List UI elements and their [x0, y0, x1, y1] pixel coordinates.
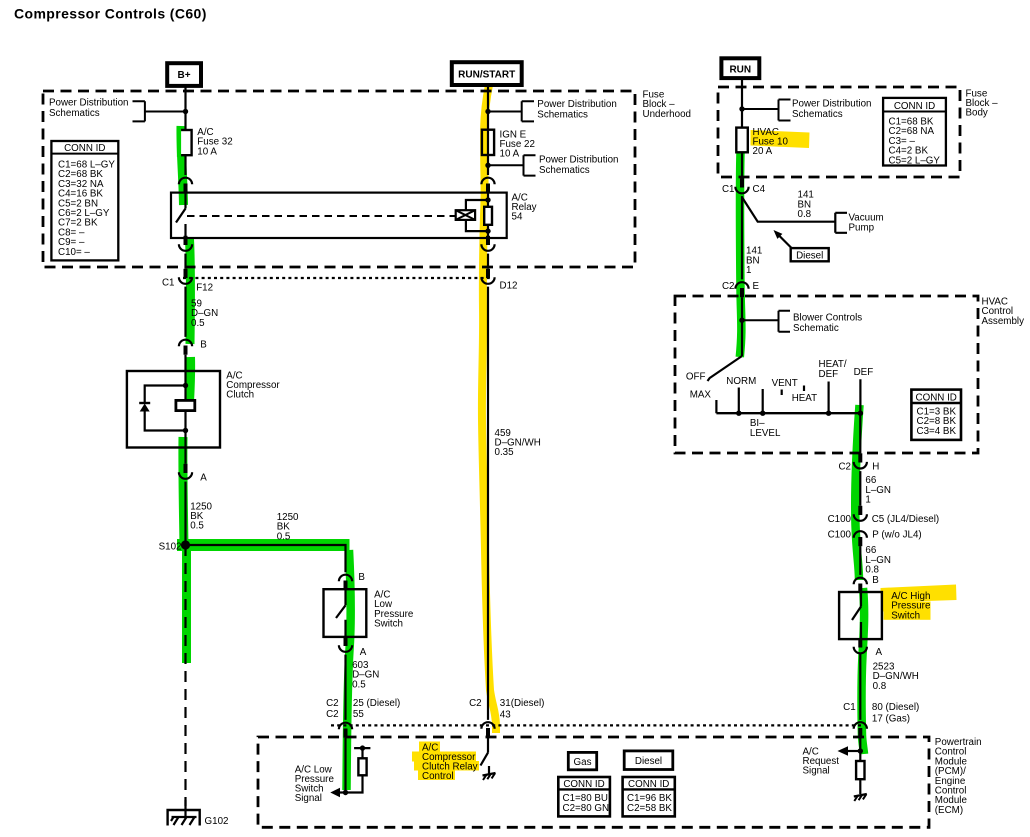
connector C1 into PCM (request signal) [843, 702, 919, 737]
wire 1250 BK 0.5 to S102 [184, 482, 186, 545]
connector C2/H [838, 453, 879, 472]
svg-text:C1: C1 [843, 702, 856, 713]
svg-text:Schematics: Schematics [792, 109, 843, 120]
wire highlight green: clutch to S102 [183, 437, 184, 548]
svg-text:0.8: 0.8 [873, 681, 887, 692]
wire into clutch [184, 355, 186, 401]
svg-text:C3=4 BK: C3=4 BK [917, 426, 957, 437]
svg-text:CONN ID: CONN ID [894, 101, 935, 112]
connector dotted line: fuse block underhood C1/D12 [183, 277, 493, 279]
wire highlight green: into clutch box [190, 357, 191, 402]
relay coil branch [466, 193, 488, 238]
wire inside PCM (low pressure signal) [344, 738, 346, 793]
svg-text:C2: C2 [326, 709, 339, 720]
svg-text:Body: Body [966, 108, 988, 119]
wire DEF down to C2/H [859, 413, 861, 453]
svg-text:Schematic: Schematic [793, 323, 839, 334]
node junction dot signal [343, 790, 348, 795]
svg-text:A: A [876, 647, 883, 658]
svg-text:25 (Diesel): 25 (Diesel) [353, 698, 400, 709]
node B+ [167, 63, 201, 86]
mode switch blade to OFF [708, 356, 743, 381]
svg-text:Switch: Switch [891, 610, 920, 621]
svg-text:Switch: Switch [374, 619, 403, 630]
svg-text:0.8: 0.8 [865, 565, 879, 576]
node junction dot power distribution stub 2 [485, 163, 490, 168]
svg-text:Power Distribution: Power Distribution [537, 99, 617, 110]
node junction dot power distribution stub (left) [183, 109, 188, 114]
wire highlight yellow: RUN/START ignition feed [482, 85, 496, 733]
node RUN [721, 58, 759, 78]
connector C2 into PCM (low pressure signal) [326, 698, 400, 738]
connector inline (left, above relay) [179, 178, 192, 193]
svg-text:31(Diesel): 31(Diesel) [500, 698, 545, 709]
node junction dot power distribution stub (RUN) [739, 106, 744, 111]
resistor (request signal) [856, 761, 864, 779]
high pressure switch contact [852, 592, 861, 639]
svg-text:G102: G102 [205, 816, 229, 827]
svg-text:10 A: 10 A [197, 146, 217, 157]
wire stub to power distribution schematics 2 [488, 155, 536, 175]
svg-text:NORM: NORM [726, 376, 756, 387]
wire highlight green: low pressure switch branch [347, 550, 351, 790]
svg-text:1: 1 [865, 495, 870, 506]
PCM internal clutch relay driver switch [481, 737, 489, 765]
node junction dots mode bus [736, 411, 741, 416]
svg-text:RUN/START: RUN/START [458, 70, 515, 81]
clutch diode loop [145, 386, 186, 431]
relay coil rect [484, 207, 492, 225]
svg-text:0.5: 0.5 [190, 521, 204, 532]
svg-text:C2: C2 [469, 698, 482, 709]
arrow A/C request signal [846, 750, 860, 752]
svg-text:80 (Diesel): 80 (Diesel) [872, 702, 919, 713]
A/C low pressure switch box [324, 589, 367, 637]
connector C1/F12 [162, 269, 213, 294]
svg-text:B: B [200, 340, 207, 351]
node junction dot blower stub [739, 318, 744, 323]
arrow A/C low pressure switch signal [330, 788, 340, 798]
wire 459 D-GN/WH 0.35 [487, 287, 489, 720]
svg-text:CONN ID: CONN ID [563, 779, 604, 790]
chassis ground (request signal) [854, 794, 867, 801]
wire 59 D-GN 0.5 [184, 287, 186, 337]
svg-text:CONN ID: CONN ID [64, 143, 105, 154]
svg-text:C2: C2 [326, 698, 339, 709]
svg-text:C2: C2 [722, 281, 735, 292]
relay solenoid X-box [456, 210, 475, 220]
svg-text:C5=2 L–GY: C5=2 L–GY [889, 155, 941, 166]
mode switch bus [716, 412, 860, 414]
PCM internal rail T-bar [354, 748, 370, 758]
wire highlight green: below relay to clutch [190, 239, 191, 344]
HIGHLIGHTS [177, 85, 957, 790]
wire highlight green: B+ fuse feed [181, 126, 184, 205]
connector C2 into PCM (clutch relay control) [469, 698, 544, 737]
svg-text:F12: F12 [196, 283, 213, 294]
wire inside PCM (request signal) [859, 737, 861, 761]
connector terminal B (high pressure switch) [854, 575, 880, 593]
svg-text:C1: C1 [722, 184, 735, 195]
wire stub to power distribution schematics (left) [133, 101, 186, 121]
svg-text:DEF: DEF [819, 369, 839, 380]
svg-text:MAX: MAX [690, 389, 712, 400]
svg-text:CONN ID: CONN ID [916, 393, 957, 404]
svg-text:1: 1 [746, 265, 751, 276]
wire 141 BN 1 [741, 196, 743, 279]
svg-text:C2=80 GN: C2=80 GN [563, 803, 610, 814]
svg-text:C5 (JL4/Diesel): C5 (JL4/Diesel) [872, 514, 940, 525]
wire highlight green: DEF position down to B [855, 405, 859, 580]
label highlight yellow: A/C Compressor Clutch Relay Control [419, 742, 440, 752]
svg-text:S102: S102 [159, 542, 182, 553]
wire 66 L-GN 1 [859, 471, 861, 506]
svg-text:C10= –: C10= – [58, 247, 90, 258]
wire 2523 D-GN/WH 0.8 [859, 654, 861, 720]
svg-text:Schematics: Schematics [49, 108, 100, 119]
connector inline (left, below relay) [179, 236, 192, 251]
connector terminal B (low pressure switch) [339, 572, 366, 590]
connector D12 [481, 269, 517, 292]
relay box A/C Relay [171, 193, 507, 238]
wire RUN/START down [487, 85, 489, 175]
Diesel pointer box [774, 230, 829, 261]
svg-text:54: 54 [512, 212, 523, 223]
svg-text:C100: C100 [828, 530, 852, 541]
wire highlight green: S102 horizontal branch [177, 539, 350, 551]
CONN ID table (fuse block body) [883, 98, 946, 166]
svg-text:0.8: 0.8 [798, 209, 812, 220]
CONN ID table (HVAC) [911, 390, 961, 440]
clutch coil [176, 400, 195, 410]
svg-text:Pump: Pump [849, 223, 875, 234]
CONN ID table (Gas PCM) [558, 777, 610, 816]
svg-text:E: E [753, 281, 760, 292]
wire stub to blower controls schematic [742, 311, 790, 332]
connector C1/C4 [722, 178, 766, 195]
connector C2/E [722, 281, 760, 297]
svg-text:Gas: Gas [574, 757, 592, 768]
label highlight yellow: A/C High Pressure Switch [881, 585, 957, 603]
svg-text:RUN: RUN [729, 64, 751, 75]
svg-text:Schematics: Schematics [539, 165, 590, 176]
fuse A/C Fuse 32 10A [179, 130, 191, 155]
svg-text:A: A [360, 647, 367, 658]
svg-text:17 (Gas): 17 (Gas) [872, 713, 910, 724]
wire fuse 10 down [741, 152, 743, 178]
connector dotted line: PCM harness connectors [331, 724, 861, 726]
svg-text:Diesel: Diesel [635, 756, 662, 767]
svg-text:A: A [200, 472, 207, 483]
svg-text:Power Distribution: Power Distribution [539, 155, 619, 166]
connector terminal B (clutch) [179, 340, 207, 355]
wire dashed S102 to G102 [184, 545, 186, 806]
wire 603 D-GN 0.5 [344, 655, 346, 720]
HVAC control assembly dashed box [675, 296, 978, 453]
svg-text:20 A: 20 A [753, 146, 773, 157]
wire highlight green: high pressure switch to PCM [862, 588, 865, 754]
connector inline (mid, above relay) [481, 178, 494, 193]
wire highlight green: S102 down ground wire [182, 548, 191, 663]
ground G102 [168, 800, 229, 827]
fuse block underhood dashed box [43, 91, 635, 267]
svg-text:Assembly: Assembly [982, 316, 1025, 327]
wire clutch coil down [184, 411, 186, 464]
low pressure switch contact [336, 589, 346, 637]
svg-text:B+: B+ [177, 70, 190, 81]
wire to C1/F12 [184, 254, 186, 269]
wire B+ to fuse 32 [184, 86, 186, 130]
svg-text:Schematics: Schematics [537, 110, 588, 121]
node RUN/START [452, 62, 522, 85]
svg-text:Signal: Signal [295, 793, 322, 804]
connector C100/P [828, 530, 922, 547]
wire fuse to connector [184, 155, 186, 175]
svg-text:10 A: 10 A [500, 149, 520, 160]
connector inline (mid, below relay) [481, 236, 494, 251]
svg-text:H: H [872, 461, 879, 472]
svg-text:C2: C2 [838, 461, 851, 472]
svg-text:Clutch: Clutch [226, 390, 254, 401]
wire into HVAC assembly [741, 297, 743, 356]
svg-text:CONN ID: CONN ID [628, 779, 669, 790]
wire RUN down [741, 78, 743, 128]
A/C compressor clutch box [127, 371, 220, 448]
diode [139, 402, 150, 404]
connector terminal A (clutch) [179, 464, 207, 484]
wire highlight green: HVAC fuse feed [740, 152, 742, 357]
svg-text:Blower Controls: Blower Controls [793, 313, 862, 324]
relay mechanical link dashed [187, 215, 456, 217]
svg-text:Signal: Signal [803, 766, 830, 777]
connector C100/C5 [828, 506, 940, 525]
svg-text:0.5: 0.5 [352, 679, 366, 690]
svg-text:C2=58 BK: C2=58 BK [627, 803, 672, 814]
fuse block body dashed box [718, 87, 960, 177]
svg-text:D12: D12 [500, 281, 518, 292]
wire diagonal branch to vacuum pump [743, 198, 848, 233]
splice S102 [181, 540, 190, 549]
svg-text:C4: C4 [753, 184, 766, 195]
svg-text:43: 43 [500, 710, 511, 721]
wire stub to power distribution schematics (RUN) [742, 100, 791, 121]
svg-text:Underhood: Underhood [643, 109, 691, 120]
svg-text:VENT: VENT [772, 378, 798, 389]
svg-text:B: B [358, 572, 365, 583]
svg-text:55: 55 [353, 709, 364, 720]
A/C high pressure switch box [839, 592, 882, 639]
svg-text:Power Distribution: Power Distribution [49, 97, 129, 108]
svg-text:0.35: 0.35 [495, 447, 515, 458]
svg-text:Diesel: Diesel [796, 250, 823, 261]
node junction dots clutch [183, 383, 188, 388]
svg-text:Power Distribution: Power Distribution [792, 99, 872, 110]
connector terminal A (high pressure switch) [854, 638, 883, 658]
connector terminal A (low pressure switch) [339, 637, 367, 658]
svg-text:0.5: 0.5 [191, 318, 205, 329]
resistor (low pressure signal pull-up) [358, 758, 366, 775]
fuse HVAC Fuse 10 20A [736, 128, 748, 153]
Diesel label box [624, 751, 673, 770]
svg-text:0.5: 0.5 [277, 531, 291, 542]
svg-text:Control: Control [422, 771, 454, 782]
svg-text:DEF: DEF [854, 367, 874, 378]
svg-text:OFF: OFF [686, 372, 706, 383]
svg-text:C1: C1 [162, 277, 175, 288]
svg-text:C100: C100 [828, 514, 852, 525]
svg-text:P (w/o JL4): P (w/o JL4) [872, 530, 921, 541]
Gas label box [568, 752, 596, 769]
svg-text:(ECM): (ECM) [935, 805, 963, 816]
relay switch contact [176, 193, 186, 238]
svg-text:LEVEL: LEVEL [750, 428, 781, 439]
wire to D12 [487, 254, 489, 269]
PCM/ECM dashed box [258, 737, 929, 827]
chassis ground (relay driver) [483, 766, 496, 780]
fuse IGN E Fuse 22 10A [482, 130, 494, 155]
CONN ID table (Diesel PCM) [623, 777, 675, 816]
mode switch position ticks [716, 379, 860, 413]
wire stub to power distribution schematics 1 [488, 101, 534, 121]
CONN ID table (fuse block underhood) [51, 141, 118, 260]
wire S102 horizontal 1250 BK 0.5 [186, 545, 346, 572]
label highlight yellow: HVAC Fuse 10 [751, 130, 810, 148]
svg-text:B: B [872, 575, 879, 586]
svg-text:HEAT: HEAT [792, 393, 817, 404]
node junction dot power distribution stub 1 [485, 109, 490, 114]
svg-text:Compressor Controls (C60): Compressor Controls (C60) [14, 6, 207, 22]
wire 66 L-GN 0.8 [859, 546, 861, 575]
